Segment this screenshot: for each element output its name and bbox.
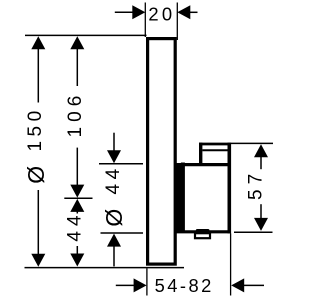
20 dim left extension — [144, 3, 146, 38]
57 dim line lower segment — [260, 204, 262, 219]
D150 dim line upper segment — [37, 49, 39, 103]
arrow 44 top — [70, 199, 84, 212]
plate (side view) — [148, 39, 176, 265]
svg-text:Ø 150: Ø 150 — [23, 106, 49, 183]
button top — [199, 143, 231, 146]
top extension line — [25, 34, 147, 36]
svg-text:Ø 44: Ø 44 — [101, 164, 127, 226]
right top extension (button top) — [231, 142, 273, 144]
arrow D150 top — [31, 36, 45, 49]
knob body bottom — [176, 230, 231, 233]
54-82 dim line left tail — [116, 284, 134, 286]
54-82 dim line right tail — [244, 284, 264, 286]
arrow 44 bottom — [70, 254, 84, 267]
20 dim line right tail — [190, 11, 198, 13]
arrow D44 top — [107, 150, 121, 163]
button left edge — [199, 143, 202, 166]
20 dim line left tail — [115, 11, 134, 13]
svg-text:54-82: 54-82 — [155, 275, 214, 296]
knob top tick (D44) — [99, 163, 143, 165]
arrow D150 bottom — [31, 254, 45, 267]
arrow 54-82 left — [134, 278, 147, 292]
arrow 106 bottom — [70, 185, 84, 198]
57 dim line upper segment — [260, 157, 262, 169]
svg-text:20: 20 — [148, 3, 175, 24]
button inner line — [202, 149, 227, 151]
knob body left edge — [181, 163, 185, 232]
arrow 106 top — [70, 36, 84, 49]
arrow 57 bottom — [254, 218, 268, 231]
D150 dim line lower segment — [37, 190, 39, 254]
arrow 20 right — [177, 5, 190, 19]
44 dim line upper segment — [76, 211, 78, 213]
center tick (106/44) — [64, 197, 92, 199]
D44 dim lower leader — [113, 246, 115, 266]
44 dim line lower segment — [76, 246, 78, 254]
knob stem (filled) — [176, 165, 182, 231]
D44 dim upper leader — [113, 133, 115, 154]
106 dim line upper segment — [76, 49, 78, 87]
svg-text:44: 44 — [64, 210, 85, 241]
arrow 54-82 right — [231, 278, 244, 292]
knob bottom hump — [196, 229, 210, 232]
svg-text:57: 57 — [245, 169, 266, 200]
arrow 20 left — [132, 5, 145, 19]
arrow 57 top — [254, 144, 268, 157]
svg-text:106: 106 — [65, 91, 86, 138]
knob bottom tick (D44) — [101, 232, 144, 234]
20 dim right extension — [176, 3, 178, 41]
knob right edge — [228, 143, 232, 234]
arrow D44 bottom — [107, 234, 121, 247]
knob body top — [176, 163, 231, 166]
knob bottom notch — [195, 233, 210, 238]
54-82 left extension — [146, 268, 148, 295]
bottom extension line — [25, 267, 185, 269]
106 dim line lower segment — [76, 148, 78, 186]
right bottom extension (knob bottom) — [234, 231, 273, 233]
54-82 right extension — [230, 233, 232, 295]
